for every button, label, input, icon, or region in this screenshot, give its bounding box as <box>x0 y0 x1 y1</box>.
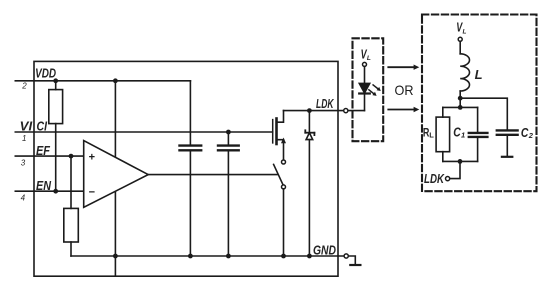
wire EF pin line <box>15 155 83 157</box>
svg-text:L: L <box>475 67 483 82</box>
diode zener D1 <box>305 111 314 256</box>
VL terminal box2 <box>458 37 462 54</box>
wire cap2 top lead <box>227 132 229 146</box>
LDK terminal <box>344 109 348 113</box>
svg-text:VI: VI <box>20 119 33 134</box>
LDK terminal box2 <box>446 177 450 181</box>
svg-text:2: 2 <box>21 81 27 90</box>
wire VDD pin line <box>15 80 190 82</box>
capacitor C1 <box>469 107 488 161</box>
arrow OR top <box>388 65 419 70</box>
svg-text:OR: OR <box>395 82 414 98</box>
node L bottom junctions <box>458 96 463 101</box>
svg-text:L: L <box>367 55 371 62</box>
svg-text:C: C <box>453 125 461 140</box>
node junction CI-cap2 <box>226 130 231 135</box>
svg-text:EF: EF <box>36 143 51 158</box>
svg-text:VDD: VDD <box>35 65 56 80</box>
LED D2 <box>359 83 370 110</box>
resistor RL <box>436 107 450 161</box>
op-amp U1 <box>84 141 149 208</box>
node rail junctions <box>113 254 118 259</box>
svg-text:4: 4 <box>21 193 26 202</box>
wire inductor bottom <box>459 91 461 107</box>
wire CI line (pin 1 to MOSFET gate) <box>15 131 272 133</box>
svg-text:+: + <box>89 151 95 163</box>
wire VDD corner down to C (internal cap 1) <box>189 81 191 146</box>
capacitor internal C b <box>218 146 239 151</box>
svg-text:1: 1 <box>461 131 465 140</box>
svg-text:2: 2 <box>528 131 534 140</box>
wire bus RL-C1 <box>443 106 478 108</box>
node junction EF <box>69 154 74 159</box>
svg-text:LDK: LDK <box>424 171 445 186</box>
svg-text:C: C <box>521 125 529 140</box>
LED light arrows <box>369 85 381 96</box>
GND terminal <box>338 254 360 265</box>
ground rail <box>71 255 338 257</box>
svg-text:CI: CI <box>37 119 48 134</box>
wire CI-to-EN vertical <box>55 132 57 191</box>
resistor R (VDD to CI) <box>49 81 63 132</box>
dashed box load network <box>422 15 537 192</box>
capacitor C2 <box>497 130 518 156</box>
wire top bus to C2 <box>460 98 507 130</box>
wire cap2 bottom to rail <box>227 150 229 256</box>
node junction VDD-R <box>53 78 58 83</box>
wire LDK stem box2 <box>450 161 460 178</box>
wire LDK line <box>284 110 365 112</box>
node junction VDD supply <box>113 78 118 83</box>
svg-text:1: 1 <box>22 134 26 143</box>
inductor L <box>460 54 469 91</box>
svg-text:3: 3 <box>21 158 26 167</box>
node junction LDK-zener <box>307 108 312 113</box>
arrow OR bottom <box>388 107 419 112</box>
wire cap1 bottom to rail <box>189 150 191 256</box>
dashed box LED branch <box>353 38 384 141</box>
IC block outline <box>34 61 338 276</box>
svg-text:L: L <box>429 130 434 139</box>
wire EN pin line <box>15 190 83 192</box>
wire bottom bus RL-C1 <box>443 160 478 162</box>
VL terminal box1 <box>363 62 367 83</box>
svg-text:GND: GND <box>313 242 336 257</box>
svg-text:L: L <box>463 28 467 35</box>
transistor Q1 (MOSFET) <box>273 111 286 160</box>
wire op-amp output <box>148 174 277 176</box>
resistor R2 (EF to ground rail) <box>64 156 79 256</box>
node junction EN <box>53 189 58 194</box>
wire VDD supply vertical (through op-amp) <box>114 81 116 276</box>
svg-text:−: − <box>89 186 95 198</box>
svg-text:EN: EN <box>36 178 52 193</box>
switch S1 <box>274 160 286 256</box>
node bottom bus junction <box>458 159 463 164</box>
svg-text:LDK: LDK <box>316 96 335 111</box>
capacitor internal C a <box>180 146 202 151</box>
